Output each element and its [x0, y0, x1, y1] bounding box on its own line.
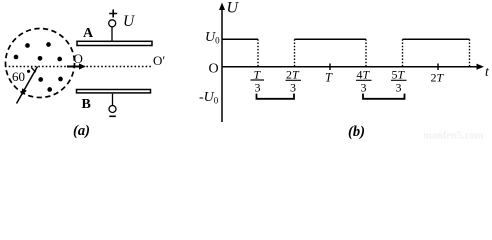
svg-text:B: B	[82, 97, 91, 112]
dotted riser at 2T/3	[294, 39, 296, 66]
field dot 8	[47, 87, 52, 92]
pulse segment +U0 [0,T/3]	[222, 38, 258, 40]
svg-text:manfen5.com: manfen5.com	[423, 131, 484, 141]
svg-text:(b): (b)	[348, 124, 365, 140]
field dot 2	[46, 42, 51, 47]
svg-text:U: U	[123, 13, 136, 30]
svg-text:3: 3	[255, 81, 261, 95]
svg-text:O: O	[74, 51, 83, 66]
minus sign	[109, 115, 116, 117]
svg-text:4T: 4T	[357, 68, 371, 82]
field dot 4	[38, 56, 43, 61]
tick at T	[329, 64, 331, 71]
plate A	[77, 41, 152, 45]
dotted drop at right end	[469, 39, 471, 66]
tick at 2T	[437, 64, 439, 71]
pulse segment +U0 [5T/3,~7T/3]	[403, 38, 470, 40]
negative pulse -U0 [4T/3,5T/3]	[363, 94, 405, 99]
U axis (vertical)	[221, 6, 223, 122]
dotted drop at T/3	[257, 39, 259, 66]
pulse segment +U0 [2T/3,4T/3]	[295, 38, 367, 40]
field dot 1	[25, 43, 30, 48]
svg-text:2T: 2T	[286, 68, 300, 82]
svg-text:5T: 5T	[392, 68, 406, 82]
field dot 5	[57, 57, 62, 62]
svg-text:T: T	[325, 71, 333, 85]
t axis (horizontal)	[222, 66, 479, 68]
svg-text:U: U	[227, 0, 240, 16]
small barb near vertex	[31, 68, 36, 73]
wire from plate A to + terminal	[111, 27, 113, 41]
dotted riser at 5T/3	[402, 39, 404, 66]
wire from plate B to - terminal	[112, 94, 114, 106]
svg-text:O: O	[209, 62, 219, 77]
radius line at 60 degrees with outward arrow	[17, 67, 38, 104]
field dot 7	[58, 77, 63, 82]
dotted drop at 4T/3	[365, 39, 367, 66]
svg-text:A: A	[83, 26, 94, 41]
svg-text:O′: O′	[153, 53, 165, 68]
field dot 3	[14, 55, 19, 60]
svg-text:60: 60	[12, 69, 25, 84]
+ terminal circle	[109, 20, 116, 27]
beam direction arrow at O	[67, 66, 81, 68]
svg-text:3: 3	[361, 81, 367, 95]
svg-text:3: 3	[290, 81, 296, 95]
- terminal circle	[109, 106, 116, 113]
negative pulse -U0 [T/3,2T/3]	[257, 94, 295, 99]
field region boundary (dashed circle)	[6, 29, 75, 98]
svg-text:3: 3	[396, 81, 402, 95]
field dot 6	[38, 77, 43, 82]
plate B	[77, 90, 151, 93]
plus sign	[109, 10, 117, 18]
svg-text:(a): (a)	[73, 123, 90, 139]
svg-text:2T: 2T	[431, 71, 445, 85]
dotted axis line O-O'	[5, 66, 151, 68]
